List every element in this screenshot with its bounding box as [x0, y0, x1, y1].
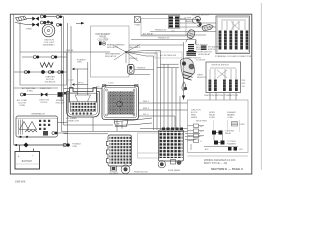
svg-text:PNK/BLK: PNK/BLK: [137, 67, 146, 69]
svg-text:IGNITION SWITCH: IGNITION SWITCH: [211, 65, 229, 67]
svg-text:1988 W/K: 1988 W/K: [15, 181, 26, 184]
svg-text:CONN: CONN: [239, 124, 245, 126]
svg-text:INSTRUMENT: INSTRUMENT: [95, 34, 111, 36]
svg-text:HORN RELAY: HORN RELAY: [198, 53, 211, 56]
svg-text:PPL 6: PPL 6: [143, 114, 149, 116]
svg-text:IGNITION SWITCH: IGNITION SWITCH: [191, 14, 209, 16]
svg-text:INDICATOR: INDICATOR: [107, 46, 119, 49]
svg-text:−: −: [32, 154, 34, 158]
svg-text:FUSE PANEL: FUSE PANEL: [168, 169, 181, 172]
svg-text:RELAY: RELAY: [225, 132, 232, 135]
svg-text:START SW: START SW: [40, 87, 51, 90]
svg-text:CONN: CONN: [19, 105, 25, 107]
svg-text:LT GRN: LT GRN: [184, 18, 192, 20]
svg-text:RESISTOR: RESISTOR: [197, 77, 207, 79]
svg-text:TO IGN SW: TO IGN SW: [196, 60, 206, 62]
svg-text:CLUSTER: CLUSTER: [98, 39, 109, 41]
svg-text:STEERING COLUMN CONNECTOR: STEERING COLUMN CONNECTOR: [215, 56, 251, 58]
svg-text:C 200: C 200: [108, 83, 114, 85]
svg-text:PNK/BLK 39: PNK/BLK 39: [155, 30, 167, 32]
svg-text:GROMMET: GROMMET: [109, 173, 119, 175]
svg-text:TCC: TCC: [171, 31, 176, 33]
svg-text:RED 2: RED 2: [143, 101, 150, 103]
svg-text:C 100: C 100: [68, 80, 74, 82]
svg-text:BATTERY: BATTERY: [22, 160, 33, 163]
svg-text:CONN: CONN: [209, 117, 215, 119]
svg-text:C100: C100: [61, 96, 63, 101]
svg-text:BRN 4: BRN 4: [143, 108, 150, 110]
svg-text:CONN: CONN: [227, 117, 233, 119]
svg-text:INDICATOR: INDICATOR: [105, 55, 117, 58]
svg-text:FUSE: FUSE: [135, 25, 141, 27]
svg-text:+: +: [18, 154, 20, 158]
svg-text:3 RED: 3 RED: [27, 91, 33, 93]
svg-text:SWITCH: SWITCH: [208, 49, 216, 51]
svg-text:BLOCK: BLOCK: [41, 102, 48, 104]
svg-text:LINK: LINK: [77, 62, 82, 64]
svg-text:SECTION E — PAGE 3: SECTION E — PAGE 3: [211, 167, 243, 171]
svg-text:IGNITION SWITCH CONNECTOR: IGNITION SWITCH CONNECTOR: [204, 95, 238, 97]
svg-text:PNK/BLK: PNK/BLK: [129, 58, 138, 60]
svg-text:A/C RELAY: A/C RELAY: [143, 32, 154, 35]
svg-text:BODY STYLE — 10): BODY STYLE — 10): [204, 162, 227, 165]
svg-text:SOLENOID: SOLENOID: [45, 82, 56, 84]
svg-text:PNK/BLK 39: PNK/BLK 39: [158, 38, 170, 40]
svg-text:A/T NEUTRAL: A/T NEUTRAL: [22, 87, 36, 90]
svg-text:LINK: LINK: [73, 146, 78, 148]
svg-text:WIRES: WIRES: [191, 117, 198, 119]
svg-text:YEL: YEL: [242, 86, 245, 88]
svg-text:GROUND: GROUND: [56, 102, 65, 104]
svg-text:FUSE BLOCK: FUSE BLOCK: [134, 172, 148, 174]
svg-text:RELAY FEED: RELAY FEED: [196, 120, 208, 123]
svg-text:ASSEMBLY: ASSEMBLY: [43, 44, 55, 47]
svg-text:TAIL LAMPS: TAIL LAMPS: [129, 46, 141, 49]
svg-text:A/C BLOWER SW: A/C BLOWER SW: [160, 54, 176, 57]
svg-text:GENERATOR: GENERATOR: [31, 113, 45, 116]
svg-text:FLASHER: FLASHER: [227, 143, 236, 146]
svg-text:PANEL: PANEL: [99, 36, 107, 39]
svg-text:2 RED: 2 RED: [26, 29, 33, 31]
svg-text:CONNECTOR: CONNECTOR: [66, 121, 79, 123]
